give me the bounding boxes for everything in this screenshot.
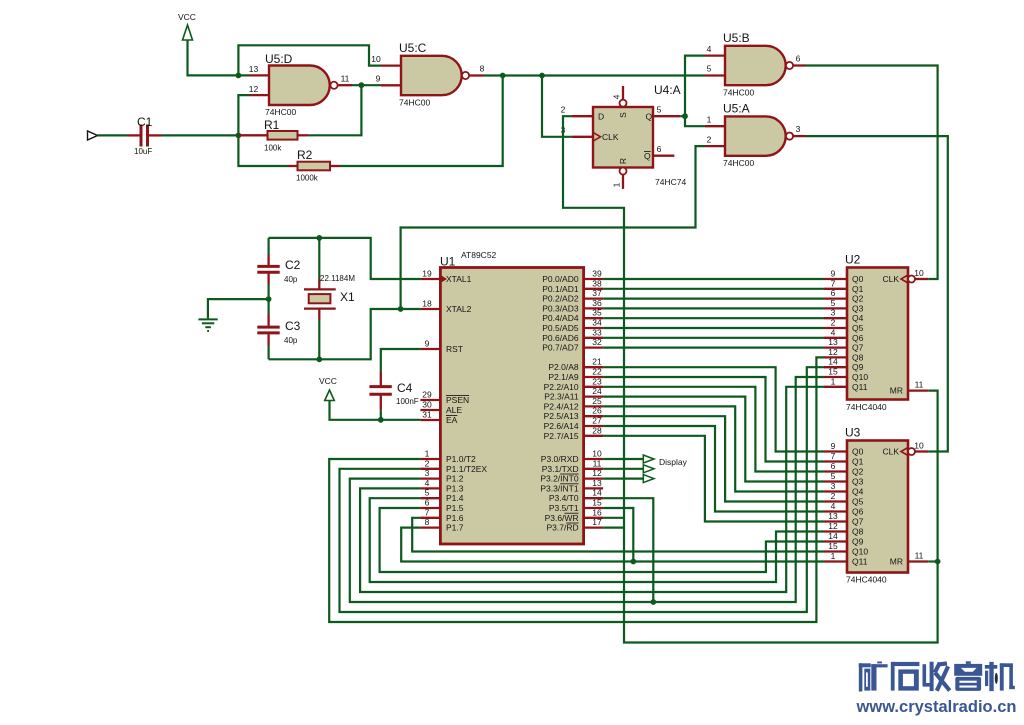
U2 Q6 pin 4 stub	[824, 337, 847, 339]
U2 Q3 pin 5 stub	[824, 307, 847, 309]
svg-text:15: 15	[828, 541, 838, 551]
svg-text:100nF: 100nF	[396, 397, 419, 406]
svg-text:3: 3	[425, 468, 430, 478]
svg-text:1: 1	[612, 182, 622, 187]
U2 Q4 pin 3 stub	[824, 317, 847, 319]
svg-text:Q6: Q6	[852, 507, 864, 517]
svg-text:12: 12	[592, 468, 602, 478]
junction XTAL2 / gate tap	[398, 306, 404, 312]
U3 Q10 pin 15 stub	[824, 550, 847, 552]
wire U2 Q11 to P1.3	[360, 387, 824, 592]
wire P2.7 to U3 Q7	[603, 436, 824, 522]
svg-text:40p: 40p	[284, 275, 298, 284]
svg-text:P1.1/T2EX: P1.1/T2EX	[446, 464, 487, 474]
svg-text:RST: RST	[446, 344, 463, 354]
svg-text:31: 31	[422, 410, 432, 420]
svg-text:P1.0/T2: P1.0/T2	[446, 454, 476, 464]
svg-text:1: 1	[425, 449, 430, 459]
U1 pin 2 (P1.1/T2EX) stub	[420, 468, 440, 470]
wire C4 bottom wire	[380, 411, 382, 420]
wire input to C1	[98, 134, 128, 136]
U5:B pin5 stub	[705, 74, 725, 76]
U5:A pin2 stub	[705, 145, 725, 147]
U3 Q1 pin 7 stub	[824, 460, 847, 462]
svg-text:Q11: Q11	[852, 382, 868, 392]
svg-text:6: 6	[425, 498, 430, 508]
wire U5:B out to U2 CLK	[806, 66, 938, 280]
svg-text:Q4: Q4	[852, 487, 864, 497]
svg-text:5: 5	[831, 298, 836, 308]
display terminal arrow 3	[643, 475, 654, 483]
svg-text:10: 10	[914, 268, 924, 278]
svg-text:EA: EA	[446, 415, 458, 425]
svg-text:CLK: CLK	[882, 447, 899, 457]
svg-text:15: 15	[592, 498, 602, 508]
svg-text:C4: C4	[397, 381, 413, 395]
wire P0.3 to U2 Q3	[603, 307, 824, 309]
U1 pin 30 (ALE) stub	[420, 409, 440, 411]
U3 Q9 pin 14 stub	[824, 540, 847, 542]
svg-text:Q0: Q0	[852, 274, 864, 284]
capacitor C4	[380, 372, 382, 386]
svg-text:4: 4	[425, 478, 430, 488]
wire P2.2 to U3 Q2	[603, 387, 824, 472]
wire P3.6 to MR net	[603, 517, 624, 519]
wire U4:A D / MR net	[563, 116, 938, 642]
wire R1 right to U5:D out	[308, 85, 361, 135]
U2 Q7 pin 13 stub	[824, 346, 847, 348]
wire X1 top lead wire	[318, 238, 320, 279]
junction osc out / R2	[500, 73, 506, 79]
svg-text:5: 5	[707, 64, 712, 74]
U1 pin 14 (P3.4/T0) stub	[584, 497, 604, 499]
svg-text:U5:D: U5:D	[265, 52, 293, 66]
wire P3.5/T1 tap	[603, 508, 633, 562]
svg-text:P2.4/A12: P2.4/A12	[544, 401, 579, 411]
svg-text:C3: C3	[285, 319, 301, 333]
svg-text:CLK: CLK	[882, 274, 899, 284]
svg-text:MR: MR	[890, 386, 903, 396]
svg-text:74HC00: 74HC00	[399, 98, 430, 108]
svg-text:VCC: VCC	[319, 376, 337, 386]
wire Q to U5:B pin4	[685, 56, 705, 117]
junction U5:D out	[359, 82, 365, 88]
wire U5:A out to U3 CLK	[806, 136, 948, 451]
svg-text:29: 29	[422, 390, 432, 400]
svg-text:X1: X1	[340, 290, 355, 304]
svg-text:30: 30	[422, 400, 432, 410]
wire C3 bottom lead wire	[268, 345, 270, 359]
display terminal arrow 2	[643, 465, 654, 473]
svg-text:4: 4	[612, 94, 622, 99]
display terminal arrow 1	[643, 455, 654, 463]
wire C2 bottom lead wire	[268, 284, 270, 299]
svg-text:Q1: Q1	[852, 284, 864, 294]
svg-text:2: 2	[831, 491, 836, 501]
svg-text:Q11: Q11	[852, 557, 868, 567]
U1 pin 9 (RST) stub	[420, 348, 440, 350]
U1 pin 7 (P1.6) stub	[420, 517, 440, 519]
U3 Q7 pin 13 stub	[824, 520, 847, 522]
svg-text:16: 16	[592, 507, 602, 517]
U1 pin 24 (P2.3/A11) stub	[584, 395, 604, 397]
wire U5:D out to U5:C pin9	[352, 84, 381, 86]
svg-text:25: 25	[592, 396, 602, 406]
U3 Q5 pin 2 stub	[824, 500, 847, 502]
svg-text:CLK: CLK	[602, 132, 619, 142]
junction osc input node	[236, 133, 242, 139]
wire VCC node to U5:C pin10	[238, 45, 381, 75]
svg-text:Q2: Q2	[852, 294, 864, 304]
svg-text:12: 12	[828, 521, 838, 531]
svg-text:19: 19	[422, 269, 432, 279]
svg-text:9: 9	[425, 339, 430, 349]
svg-text:6: 6	[831, 288, 836, 298]
U1 pin 39 (P0.0/AD0) stub	[584, 278, 604, 280]
U3 Q0 pin 9 stub	[824, 450, 847, 452]
U2 Q11 pin 1 stub	[824, 386, 847, 388]
junction Q node	[682, 113, 688, 119]
svg-text:Q: Q	[644, 151, 651, 161]
svg-text:P1.2: P1.2	[446, 474, 464, 484]
svg-text:10: 10	[914, 441, 924, 451]
wire X1 bottom lead wire	[318, 320, 320, 359]
svg-text:12: 12	[828, 347, 838, 357]
U2 Q1 pin 7 stub	[824, 288, 847, 290]
wire osc node to U5:D pin12	[238, 95, 249, 135]
U1 pin 4 (P1.3) stub	[420, 487, 440, 489]
svg-text:74HC74: 74HC74	[655, 177, 686, 187]
U1 pin 12 (P3.2/INT0) stub	[584, 477, 604, 479]
svg-text:74HC00: 74HC00	[723, 158, 754, 168]
svg-text:P1.4: P1.4	[446, 493, 464, 503]
svg-text:74HC00: 74HC00	[265, 107, 296, 117]
U1 pin 1 (P1.0/T2) stub	[420, 458, 440, 460]
wire U3 Q8 to P1.4	[370, 498, 824, 582]
svg-text:Q8: Q8	[852, 352, 864, 362]
U2 CLK pin 10 stub	[915, 278, 928, 280]
svg-text:24: 24	[592, 386, 602, 396]
counter U2 74HC4040 body	[847, 268, 908, 400]
svg-text:Q9: Q9	[852, 362, 864, 372]
svg-text:S: S	[618, 112, 628, 118]
NAND gate U5:D body	[269, 66, 330, 106]
svg-text:P3.1/TXD: P3.1/TXD	[542, 464, 579, 474]
U2 Q5 pin 2 stub	[824, 327, 847, 329]
MCU U1 AT89C52 body	[440, 268, 583, 545]
wire VCC to U5:D pin13	[188, 40, 250, 75]
svg-text:74HC4040: 74HC4040	[846, 575, 887, 585]
svg-text:R: R	[618, 158, 628, 164]
U1 pin 33 (P0.6/AD6) stub	[584, 337, 604, 339]
svg-text:22: 22	[592, 367, 602, 377]
svg-text:P3.5/T1: P3.5/T1	[549, 503, 579, 513]
U3 Q11 pin 1 stub	[824, 560, 847, 562]
U1 pin 21 (P2.0/A8) stub	[584, 366, 604, 368]
wire XTAL1 rail	[269, 238, 421, 279]
svg-text:9: 9	[831, 441, 836, 451]
svg-text:P0.0/AD0: P0.0/AD0	[542, 274, 579, 284]
svg-text:Q1: Q1	[852, 457, 864, 467]
NAND gate U5:B body	[725, 46, 786, 85]
U2 Q0 pin 9 stub	[824, 278, 847, 280]
wire P0.2 to U2 Q2	[603, 298, 824, 300]
svg-text:9: 9	[376, 74, 381, 84]
wire P0.4 to U2 Q4	[603, 317, 824, 319]
U3 Q2 pin 6 stub	[824, 470, 847, 472]
U5:C pin8 stub	[469, 74, 484, 76]
svg-text:11: 11	[593, 458, 602, 468]
svg-text:R1: R1	[264, 118, 280, 132]
svg-text:Q: Q	[646, 112, 653, 122]
wire XTAL2 rail	[269, 309, 421, 359]
U1 pin 3 (P1.2) stub	[420, 477, 440, 479]
svg-text:14: 14	[592, 488, 602, 498]
wire P3.7 to MR net	[603, 526, 624, 528]
svg-text:4: 4	[707, 44, 712, 54]
svg-text:Display: Display	[659, 457, 688, 467]
U1 pin 8 (P1.7) stub	[420, 526, 440, 528]
wire U5:C out to U5:B pin5	[484, 74, 705, 76]
U3 CLK bubble	[908, 448, 915, 455]
junction C2/C3/GND	[266, 296, 272, 302]
wire VCC to EA	[330, 401, 421, 420]
svg-text:P1.7: P1.7	[446, 523, 464, 533]
wire osc out to U4:A CLK	[542, 76, 572, 137]
svg-text:37: 37	[592, 288, 602, 298]
svg-text:3: 3	[831, 481, 836, 491]
wire RST to C4	[381, 349, 421, 372]
svg-text:9: 9	[831, 269, 836, 279]
svg-text:5: 5	[657, 105, 662, 115]
U1 pin 10 (P3.0/RXD) stub	[584, 458, 604, 460]
svg-text:U4:A: U4:A	[654, 83, 681, 97]
wire P2.1 to U3 Q1	[603, 377, 824, 462]
svg-text:13: 13	[828, 511, 838, 521]
wire C2 top lead wire	[268, 238, 270, 254]
svg-text:2: 2	[707, 134, 712, 144]
svg-text:18: 18	[422, 299, 432, 309]
U5:C pin10 stub	[381, 64, 401, 66]
svg-text:P0.1/AD1: P0.1/AD1	[542, 284, 579, 294]
svg-text:2: 2	[561, 105, 566, 115]
U2 Q8 pin 12 stub	[824, 356, 847, 358]
svg-text:R2: R2	[297, 148, 313, 162]
wire U2 Q9 to P1.1	[340, 367, 825, 612]
U5:A pin1 stub	[705, 125, 725, 127]
svg-text:2: 2	[425, 458, 430, 468]
svg-text:P2.1/A9: P2.1/A9	[548, 372, 579, 382]
U5:B pin4 stub	[705, 54, 725, 56]
svg-text:ALE: ALE	[446, 405, 462, 415]
junction X1 bottom rail	[316, 356, 322, 362]
svg-text:www.crystalradio.cn: www.crystalradio.cn	[856, 697, 1017, 716]
U5:B output bubble	[786, 62, 793, 69]
resistor R1	[238, 134, 267, 136]
svg-text:6: 6	[796, 54, 801, 64]
U3 Q4 pin 3 stub	[824, 490, 847, 492]
svg-text:22.1184M: 22.1184M	[320, 274, 355, 283]
U3 Q8 pin 12 stub	[824, 530, 847, 532]
wire U3 Q10 to P1.6	[412, 518, 824, 552]
svg-text:U1: U1	[440, 255, 456, 269]
U4:A set pin 4 (top)	[622, 86, 624, 99]
svg-text:MR: MR	[890, 557, 903, 567]
wire P0.7 to U2 Q7	[603, 347, 824, 349]
wire osc node to R2	[238, 135, 287, 166]
wire C1 to osc node	[162, 134, 238, 136]
svg-text:P0.5/AD5: P0.5/AD5	[542, 323, 579, 333]
input terminal arrow	[88, 131, 98, 140]
svg-text:XTAL1: XTAL1	[446, 274, 472, 284]
svg-text:P3.3/INT1: P3.3/INT1	[540, 483, 579, 493]
wire P0.6 to U2 Q6	[603, 337, 824, 339]
svg-text:P2.2/A10: P2.2/A10	[544, 382, 579, 392]
svg-text:39: 39	[592, 269, 602, 279]
svg-text:1: 1	[831, 376, 836, 386]
svg-text:1: 1	[831, 551, 836, 561]
U5:A output bubble	[786, 133, 793, 140]
svg-text:15: 15	[828, 367, 838, 377]
watermark logo text (kuang shi shou yin ji)	[859, 661, 1015, 691]
wire P3.1 to display terminal	[603, 468, 643, 470]
svg-text:P2.5/A13: P2.5/A13	[544, 411, 579, 421]
U1 XTAL1 clock marker	[440, 275, 447, 283]
svg-text:C2: C2	[285, 258, 301, 272]
svg-text:13: 13	[592, 478, 602, 488]
NAND gate U5:C body	[401, 56, 462, 95]
U1 pin 37 (P0.2/AD2) stub	[584, 297, 604, 299]
svg-text:8: 8	[425, 517, 430, 527]
wire P2.0 to U3 Q0	[603, 367, 824, 451]
svg-text:5: 5	[425, 488, 430, 498]
svg-text:100k: 100k	[264, 144, 282, 153]
wire P0.1 to U2 Q1	[603, 288, 824, 290]
svg-text:P2.6/A14: P2.6/A14	[544, 421, 579, 431]
svg-text:P2.0/A8: P2.0/A8	[548, 362, 579, 372]
U1 pin 25 (P2.4/A12) stub	[584, 405, 604, 407]
U1 pin 6 (P1.5) stub	[420, 507, 440, 509]
svg-text:7: 7	[425, 507, 430, 517]
U4:A Q pin 5 stub	[654, 115, 681, 117]
svg-text:Q7: Q7	[852, 517, 864, 527]
svg-text:3: 3	[831, 308, 836, 318]
svg-text:U5:C: U5:C	[399, 41, 427, 55]
svg-text:U3: U3	[845, 426, 861, 440]
wire U2 Q8 to P1.0	[329, 357, 824, 622]
U3 clock marker	[901, 448, 908, 456]
U5:C output bubble	[462, 72, 469, 79]
capacitor C1	[127, 134, 140, 136]
U2 CLK bubble	[908, 276, 915, 283]
wire P2.6 to U3 Q6	[603, 426, 824, 512]
wire R2 right to U5:C out	[340, 76, 503, 167]
wire Q to U5:A pin1	[685, 116, 705, 126]
svg-text:P3.7/RD: P3.7/RD	[546, 523, 578, 533]
svg-text:28: 28	[592, 425, 602, 435]
svg-text:11: 11	[341, 74, 350, 84]
svg-text:36: 36	[592, 298, 602, 308]
U1 pin 5 (P1.4) stub	[420, 497, 440, 499]
U1 pin 29 (PSEN) stub	[420, 399, 440, 401]
junction VCC/pin13	[236, 73, 242, 79]
junction T0 / P1.2 row	[650, 599, 656, 605]
wire U2 Q10 to P1.2	[350, 377, 824, 602]
U3 Q3 pin 5 stub	[824, 480, 847, 482]
svg-text:6: 6	[657, 144, 662, 154]
svg-text:1000k: 1000k	[296, 174, 319, 183]
U1 pin 16 (P3.6/WR) stub	[584, 517, 604, 519]
svg-text:74HC00: 74HC00	[723, 88, 754, 98]
U5:D output bubble	[330, 82, 337, 89]
svg-text:Q3: Q3	[852, 477, 864, 487]
svg-text:Q7: Q7	[852, 343, 864, 353]
svg-text:11: 11	[915, 380, 924, 390]
U5:D pin11 stub	[338, 84, 352, 86]
svg-text:40p: 40p	[284, 336, 298, 345]
svg-text:7: 7	[831, 451, 836, 461]
svg-text:Q10: Q10	[852, 547, 868, 557]
U1 pin 15 (P3.5/T1) stub	[584, 507, 604, 509]
U5:C pin9 stub	[381, 84, 401, 86]
svg-text:8: 8	[480, 64, 485, 74]
svg-text:4: 4	[831, 327, 836, 337]
wire C3 top lead wire	[268, 299, 270, 314]
svg-text:14: 14	[828, 357, 838, 367]
svg-text:D: D	[598, 112, 604, 122]
wire U3 Q11 to P1.7	[401, 528, 824, 562]
U1 pin 13 (P3.3/INT1) stub	[584, 487, 604, 489]
U2 Q9 pin 14 stub	[824, 366, 847, 368]
svg-text:17: 17	[592, 517, 602, 527]
U3 CLK pin 10 stub	[915, 450, 928, 452]
wire P3.2 to display terminal	[603, 478, 643, 480]
U2 Q2 pin 6 stub	[824, 297, 847, 299]
svg-text:P0.3/AD3: P0.3/AD3	[542, 303, 579, 313]
svg-text:13: 13	[828, 337, 838, 347]
U3 Q6 pin 4 stub	[824, 510, 847, 512]
svg-text:21: 21	[592, 357, 602, 367]
svg-text:Q4: Q4	[852, 313, 864, 323]
svg-text:C1: C1	[137, 115, 153, 129]
svg-text:P2.3/A11: P2.3/A11	[544, 392, 579, 402]
svg-text:P0.2/AD2: P0.2/AD2	[542, 294, 579, 304]
svg-text:33: 33	[592, 327, 602, 337]
U2 MR pin 11 stub	[908, 389, 928, 391]
svg-text:32: 32	[592, 337, 602, 347]
wire P0.0 to U2 Q0	[603, 278, 824, 280]
svg-text:P1.3: P1.3	[446, 483, 464, 493]
wire U3 MR to MR net	[928, 560, 937, 562]
U1 pin 35 (P0.4/AD4) stub	[584, 317, 604, 319]
svg-text:4: 4	[831, 501, 836, 511]
wire P3.0 to display terminal	[603, 458, 643, 460]
svg-text:Q6: Q6	[852, 333, 864, 343]
svg-text:Q3: Q3	[852, 303, 864, 313]
U5:A pin3 stub	[793, 135, 806, 137]
U1 pin 27 (P2.6/A14) stub	[584, 425, 604, 427]
junction X1 top rail	[316, 235, 322, 241]
U1 pin 26 (P2.5/A13) stub	[584, 415, 604, 417]
wire P2.3 to U3 Q3	[603, 397, 824, 482]
watermark JI leaf dot	[995, 673, 998, 684]
svg-text:34: 34	[592, 318, 602, 328]
U4:A reset pin 1 (bottom)	[620, 168, 627, 175]
U1 pin 36 (P0.3/AD3) stub	[584, 307, 604, 309]
svg-text:10: 10	[592, 449, 602, 459]
U1 pin 19 (XTAL1) stub	[420, 278, 440, 280]
U5:D pin12 stub	[249, 94, 269, 96]
